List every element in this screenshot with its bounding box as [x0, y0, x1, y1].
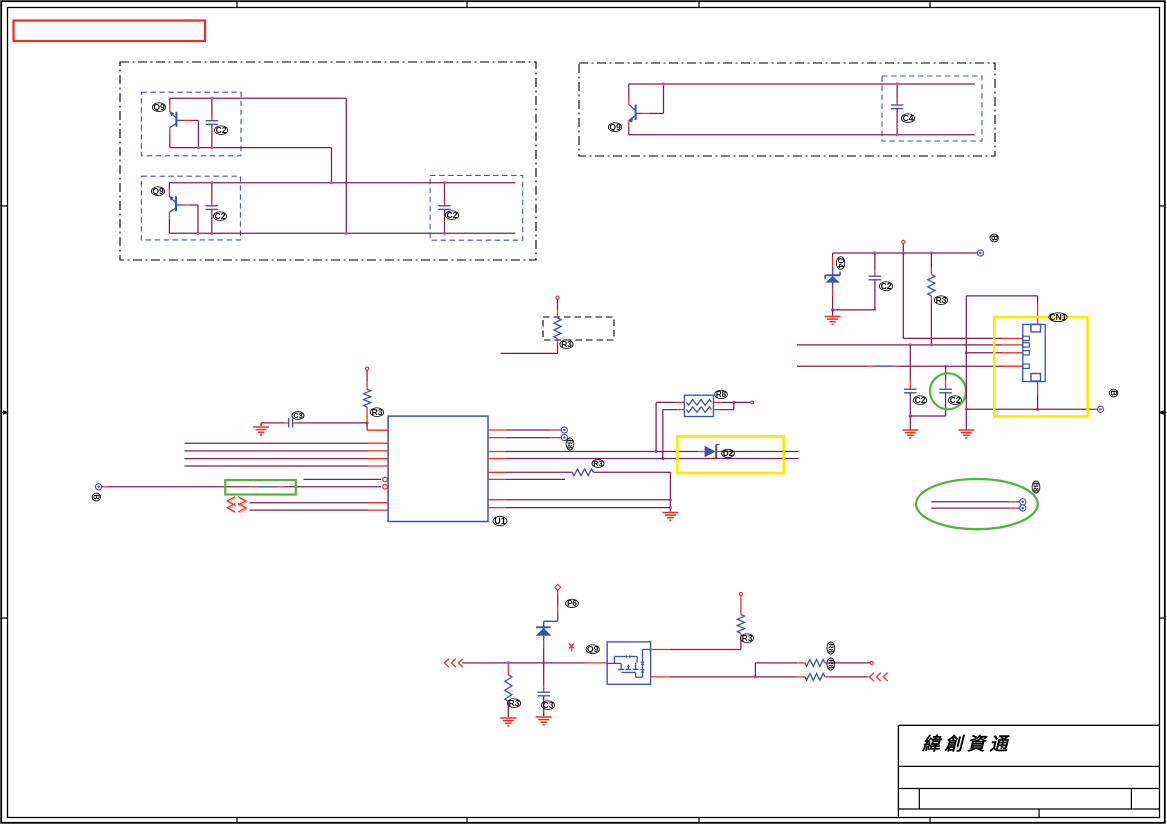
svg-text:C2: C2 [915, 395, 926, 405]
svg-text:Q9: Q9 [153, 102, 165, 112]
svg-text:B8: B8 [566, 439, 575, 449]
svg-text:R3: R3 [936, 295, 947, 305]
svg-text:C2: C2 [447, 210, 458, 220]
svg-text:C3: C3 [543, 700, 554, 710]
svg-text:Q9: Q9 [152, 186, 164, 196]
svg-text:C3: C3 [293, 411, 303, 420]
svg-text:U1: U1 [494, 516, 506, 526]
svg-text:CN1: CN1 [1049, 312, 1066, 322]
svg-text:B8: B8 [1032, 482, 1041, 492]
svg-text:C2: C2 [950, 395, 961, 405]
svg-text:R8: R8 [826, 643, 835, 653]
svg-text:B: B [1109, 390, 1118, 396]
svg-text:C2: C2 [216, 125, 227, 135]
svg-text:D2: D2 [723, 449, 734, 458]
svg-text:D4: D4 [836, 258, 845, 269]
svg-text:R3: R3 [509, 698, 520, 708]
svg-text:Q9: Q9 [587, 644, 599, 654]
svg-text:P6: P6 [567, 599, 577, 608]
svg-text:B: B [990, 235, 999, 241]
svg-text:B: B [92, 494, 101, 500]
svg-text:C4: C4 [903, 113, 914, 123]
svg-text:C2: C2 [215, 211, 226, 221]
svg-text:R3: R3 [561, 339, 572, 349]
svg-text:R8: R8 [716, 390, 727, 399]
svg-text:R3: R3 [742, 633, 753, 643]
svg-text:R3: R3 [372, 407, 383, 417]
svg-text:緯創資通: 緯創資通 [921, 734, 1012, 754]
svg-text:R3: R3 [593, 459, 603, 468]
svg-text:Q9: Q9 [609, 122, 621, 132]
svg-text:C2: C2 [881, 281, 892, 291]
svg-text:R8: R8 [826, 659, 835, 669]
